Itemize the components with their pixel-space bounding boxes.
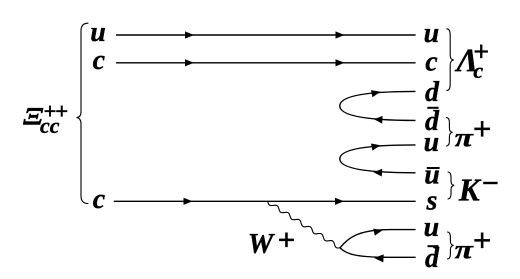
svg-text:u: u (90, 17, 106, 48)
svg-text:W: W (248, 228, 276, 260)
svg-text:K: K (458, 173, 482, 208)
svg-text:u: u (424, 18, 440, 49)
svg-text:+: + (473, 223, 492, 259)
svg-text:d: d (425, 243, 440, 274)
svg-text:c: c (473, 58, 483, 83)
svg-text:d: d (425, 77, 440, 108)
svg-text:u: u (424, 212, 440, 243)
svg-text:c: c (425, 46, 438, 77)
svg-text:c: c (93, 184, 106, 215)
svg-text:+: + (277, 222, 295, 257)
svg-text:c: c (93, 45, 106, 76)
svg-text:+: + (473, 112, 492, 148)
svg-text:cc: cc (40, 113, 60, 138)
svg-text:u: u (424, 127, 440, 158)
